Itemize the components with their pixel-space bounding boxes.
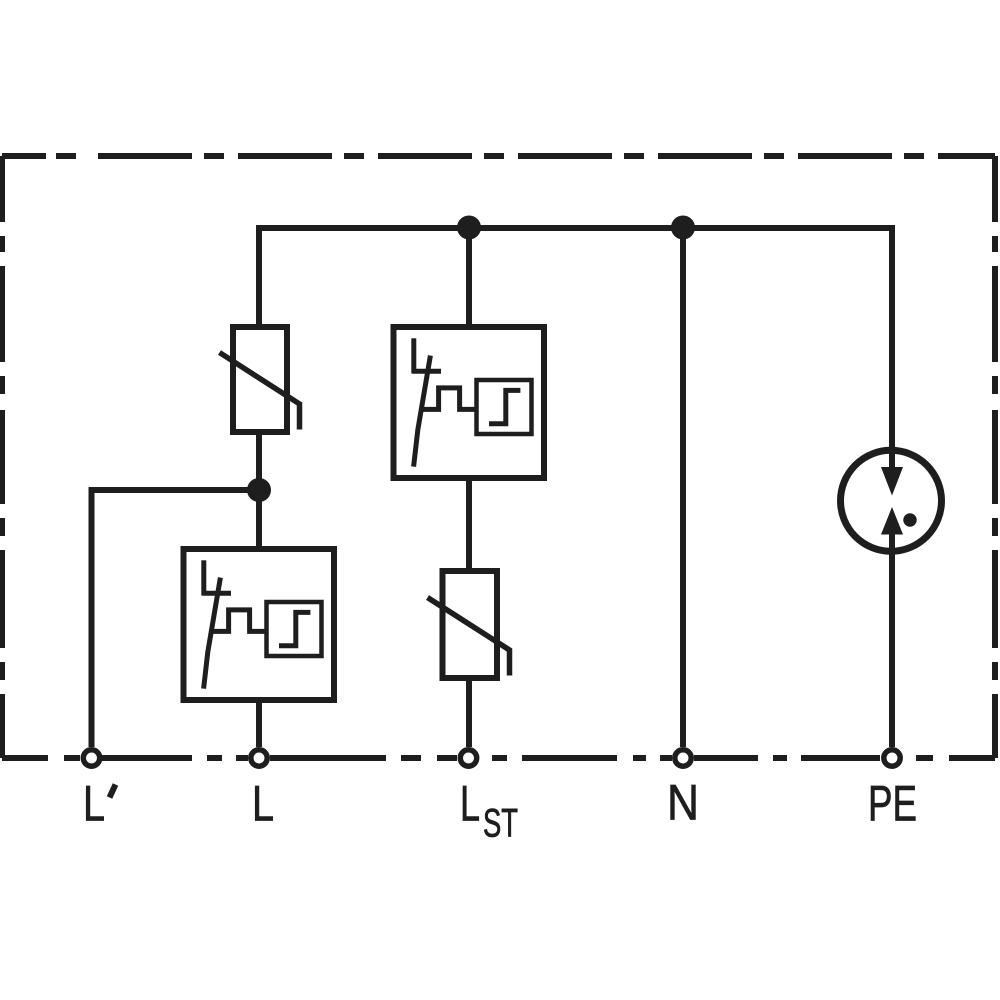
enclosure border left (dash-dot) bbox=[0, 156, 5, 758]
junction dot at bus / LST branch bbox=[457, 216, 481, 240]
bottom boundary dash-dot line through terminals bbox=[2, 755, 995, 761]
wire from RV1 down through node to box U2 bbox=[256, 432, 262, 549]
svg-text:ST: ST bbox=[483, 802, 518, 846]
wire middle branch down from bus to box U1 bbox=[466, 228, 472, 327]
varistor RV1 strike line bbox=[220, 353, 300, 430]
terminal circles bbox=[83, 750, 900, 766]
varistor RV1 body bbox=[233, 327, 287, 432]
wire top bus from L branch across to PE branch bbox=[259, 228, 892, 447]
svg-text:L: L bbox=[460, 775, 480, 832]
svg-text:L: L bbox=[252, 775, 274, 832]
svg-text:L: L bbox=[83, 775, 105, 832]
enclosure border right (dash-dot) bbox=[992, 156, 998, 758]
terminal N bbox=[675, 750, 691, 766]
junction dot at bus / N branch bbox=[671, 216, 695, 240]
isolating spark gap circle (PE branch) bbox=[841, 450, 942, 551]
varistor RV2 strike line bbox=[428, 598, 510, 676]
wire from RV2 down to terminal LST bbox=[466, 678, 472, 747]
wire from U2 down to terminal L bbox=[256, 700, 262, 747]
wire from U1 down to varistor RV2 bbox=[466, 478, 472, 571]
junction dot node (259,490) bbox=[247, 478, 271, 502]
enclosure border top (dash-dot) bbox=[2, 153, 995, 159]
box U1 (triggered spark gap) outline bbox=[394, 327, 545, 478]
spark gap arrow up bbox=[881, 507, 903, 535]
wire from node at (259,490) left and down to terminal L' bbox=[92, 490, 260, 747]
terminal L bbox=[251, 750, 267, 766]
wire N branch from bus down to terminal N bbox=[680, 228, 686, 747]
terminal L' bbox=[83, 750, 99, 766]
box U2 symbol content bbox=[202, 560, 321, 688]
svg-text:PE: PE bbox=[868, 775, 917, 832]
svg-text:N: N bbox=[667, 774, 699, 831]
box U1 symbol content bbox=[412, 338, 531, 466]
wire into spark gap top bbox=[889, 447, 895, 470]
box U2 (triggered spark gap) outline bbox=[184, 549, 335, 700]
terminal LST bbox=[460, 750, 476, 766]
spark gap arrow down bbox=[881, 467, 903, 496]
wire from spark gap bottom to terminal PE bbox=[889, 534, 895, 747]
terminal PE bbox=[884, 750, 900, 766]
spark gap indicator dot bbox=[903, 513, 916, 526]
varistor RV2 body bbox=[443, 571, 498, 678]
